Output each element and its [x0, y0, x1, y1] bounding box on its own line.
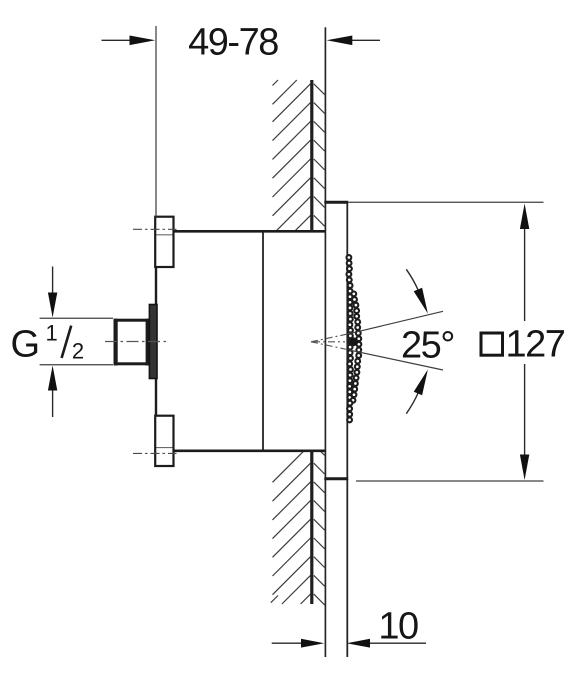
- wall finished-face line / plate back / right extension of 49-78 / 10: [324, 27, 326, 657]
- bottom tab screw centerline: [133, 452, 177, 454]
- wall rough-face thick line (lower): [310, 451, 313, 604]
- dimension 10 right arrow: [369, 642, 427, 644]
- G1/2 dimension top extension line: [40, 317, 113, 319]
- device axis centerline (through nipple): [105, 341, 168, 343]
- plate bottom edge: [324, 477, 348, 480]
- cone angle upper arc arrow: [406, 269, 418, 289]
- thin body edge behind top tab: [156, 234, 174, 236]
- body bottom edge: [174, 449, 326, 452]
- square 127 dimension bottom extension line: [356, 480, 544, 482]
- spray cone lower line: [349, 350, 444, 370]
- wall hatch lower left (rough wall, "/" lines): [271, 451, 311, 604]
- spray cone axis dash-dot stub: [313, 341, 345, 343]
- body top edge: [174, 230, 326, 233]
- plate top edge: [324, 201, 348, 204]
- dimension 49-78 left extension line: [155, 26, 157, 217]
- spray cone upper line: [349, 311, 444, 334]
- G1/2 threaded nipple body: [115, 320, 148, 364]
- top tab screw centerline: [133, 228, 177, 230]
- nipple left thick end bar: [114, 319, 118, 366]
- G1/2 dimension bottom extension line: [40, 364, 113, 366]
- G1/2 dimension upper arrow: [52, 267, 54, 295]
- svg-text:49-78: 49-78: [188, 22, 278, 64]
- svg-text:10: 10: [378, 606, 418, 648]
- svg-text:1: 1: [46, 321, 58, 346]
- thin body edge behind bottom tab: [156, 447, 174, 449]
- svg-text:25°: 25°: [401, 325, 454, 367]
- escutcheon plate front face line (continues down for 10 dim): [346, 202, 348, 657]
- svg-text:2: 2: [72, 339, 84, 364]
- spray nozzle bead face: [347, 255, 362, 422]
- square 127 dimension top extension line: [348, 201, 543, 203]
- wall hatch upper left (rough wall, "/" lines): [273, 80, 311, 231]
- square 127 dimension line lower segment + arrow: [524, 364, 526, 457]
- dimension 49-78 left arrow: [102, 39, 132, 41]
- spray cone upper dash-dot extension: [311, 334, 349, 342]
- square 127 dimension line upper segment + arrow: [524, 227, 526, 321]
- dimension 49-78 right arrow: [351, 39, 380, 41]
- wall rough-face thick line (upper): [310, 80, 313, 231]
- dimension 10 left arrow: [272, 642, 303, 644]
- svg-text:127: 127: [506, 324, 565, 366]
- body internal division line: [262, 231, 264, 450]
- svg-text:G: G: [11, 324, 40, 366]
- G1/2 dimension lower arrow: [52, 389, 54, 417]
- spray cone lower dash-dot extension: [311, 342, 349, 350]
- wall hatch lower strip ("\" lines): [314, 451, 325, 605]
- central nozzle blob: [349, 337, 358, 346]
- nipple right thick end bar: [146, 319, 150, 366]
- cone angle lower arc arrow: [406, 393, 418, 413]
- wall hatch upper strip (finish layer, "\" lines): [314, 84, 325, 226]
- bottom mounting tab: [155, 416, 173, 466]
- top mounting tab: [155, 217, 173, 267]
- nipple flange: [149, 305, 157, 379]
- body left edge: [155, 266, 157, 417]
- square symbol: [481, 333, 503, 355]
